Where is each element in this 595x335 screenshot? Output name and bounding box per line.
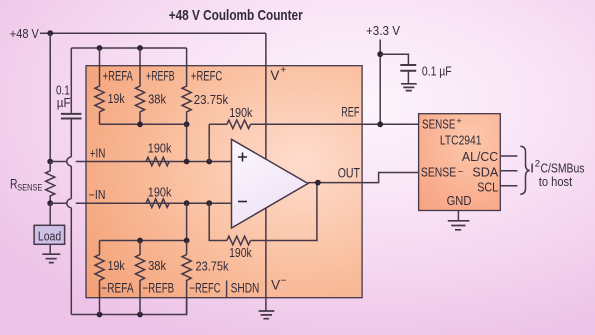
- load box: [34, 225, 65, 244]
- ground under C2: [401, 84, 417, 91]
- svg-text:19k: 19k: [108, 259, 126, 273]
- brace I2C bus: [520, 146, 530, 194]
- ground under load: [42, 254, 60, 262]
- op-amp U1 triangle: [232, 139, 309, 228]
- wire load to ground: [49, 244, 51, 254]
- resistor RSENSE: [46, 162, 55, 204]
- svg-text:+: +: [280, 65, 286, 76]
- svg-text:+: +: [456, 116, 462, 127]
- svg-text:µF: µF: [57, 96, 71, 110]
- svg-text:19k: 19k: [108, 92, 126, 106]
- IC LTC2941 body: [419, 114, 501, 211]
- svg-text:SENSE: SENSE: [17, 182, 42, 193]
- resistor +REFA 19k: [95, 48, 104, 124]
- wire GND stub: [457, 211, 459, 221]
- resistor R+IN 190k: [146, 157, 169, 166]
- wire hop over +IN: [67, 157, 72, 166]
- resistor REF 190k: [227, 120, 251, 129]
- wire +48V rail: [40, 32, 266, 34]
- junction OUT node: [315, 180, 321, 186]
- wire ref loop bottom: [71, 298, 186, 315]
- svg-text:−REFA: −REFA: [101, 281, 133, 296]
- wire sense line vertical upper: [49, 33, 51, 161]
- wire -IN line: [50, 202, 231, 204]
- junction +node A: [184, 159, 190, 165]
- svg-text:−: −: [458, 166, 464, 177]
- svg-text:SENSE: SENSE: [421, 166, 456, 180]
- svg-text:190k: 190k: [229, 106, 253, 120]
- svg-text:0.1 µF: 0.1 µF: [422, 64, 452, 78]
- svg-text:+REFB: +REFB: [146, 69, 175, 84]
- junction 23.75k bottom: [184, 121, 190, 127]
- amplifier block U1 body: [86, 66, 362, 298]
- pin stub SDA: [500, 170, 517, 172]
- junction +IN tap: [47, 159, 53, 165]
- ground SHDN / V-: [259, 311, 275, 319]
- junction 38k bottom: [137, 121, 143, 127]
- wire REF branch vertical: [208, 124, 210, 161]
- wire REF line: [209, 123, 418, 125]
- wire cap branch: [380, 54, 408, 83]
- wire sense line vertical lower: [49, 203, 51, 225]
- wire ref loop vertical left: [70, 48, 72, 315]
- svg-text:REF: REF: [341, 105, 359, 120]
- svg-text:V: V: [270, 68, 279, 83]
- pin stub SCL: [500, 185, 517, 187]
- svg-text:190k: 190k: [229, 246, 252, 260]
- resistor +REFB 38k: [135, 48, 144, 124]
- wire hop over -IN: [67, 199, 72, 208]
- svg-text:Load: Load: [38, 229, 61, 243]
- svg-text:SCL: SCL: [477, 181, 498, 195]
- resistor +REFC 23.75k: [182, 48, 191, 124]
- svg-text:SDA: SDA: [472, 166, 498, 180]
- wire -node to lower network: [186, 203, 188, 240]
- svg-text:38k: 38k: [148, 259, 167, 273]
- wire OUT line: [308, 173, 419, 183]
- resistor R-IN 190k: [146, 199, 169, 208]
- resistor -REFC 23.75k: [182, 241, 191, 315]
- capacitor C2 0.1uF: [400, 65, 416, 71]
- svg-text:+3.3 V: +3.3 V: [366, 24, 400, 38]
- wire lower network top rail: [100, 240, 187, 242]
- junction 23.75k top lower: [184, 238, 190, 244]
- svg-text:190k: 190k: [148, 186, 172, 200]
- svg-text:SHDN: SHDN: [231, 281, 260, 296]
- svg-text:+REFC: +REFC: [191, 69, 223, 84]
- svg-text:+48 V Coulomb Counter: +48 V Coulomb Counter: [169, 7, 303, 24]
- junction +node B: [206, 159, 212, 165]
- svg-text:23.75k: 23.75k: [196, 260, 230, 274]
- wire +node to network: [186, 124, 188, 161]
- junction 38k top lower: [137, 238, 143, 244]
- junction -REFA bottom: [97, 312, 103, 318]
- svg-text:GND: GND: [447, 194, 472, 208]
- svg-text:190k: 190k: [148, 141, 172, 155]
- capacitor C1 0.1uF left: [61, 114, 82, 119]
- svg-text:+48 V: +48 V: [10, 27, 39, 41]
- junction 3.3V cap tap: [377, 51, 383, 57]
- op-amp minus sign: [238, 201, 247, 203]
- svg-text:C/SMBus: C/SMBus: [541, 161, 585, 176]
- svg-text:+IN: +IN: [90, 147, 106, 161]
- wire feedback branch: [209, 183, 317, 241]
- wire top network bottom rail: [100, 123, 187, 125]
- wire +3.3V vertical: [379, 40, 381, 125]
- resistor -REFB 38k: [135, 241, 144, 315]
- svg-text:AL/CC: AL/CC: [462, 150, 498, 164]
- junction -node B: [206, 200, 212, 206]
- svg-text:38k: 38k: [148, 92, 167, 106]
- svg-text:−IN: −IN: [89, 188, 106, 202]
- wire V+ supply vertical and SHDN to ground: [265, 33, 267, 311]
- junction -REFB bottom: [137, 312, 143, 318]
- pin stub AL/CC: [500, 155, 517, 157]
- junction -IN tap: [47, 200, 53, 206]
- svg-text:−REFB: −REFB: [143, 281, 175, 296]
- svg-text:V: V: [271, 278, 280, 293]
- junction REF / SENSE+ node: [377, 121, 383, 127]
- wire ref loop top: [71, 47, 186, 49]
- ground under LTC2941: [448, 221, 470, 230]
- wire +IN line: [50, 161, 231, 163]
- svg-text:23.75k: 23.75k: [194, 93, 229, 107]
- resistor -REFA 19k: [95, 241, 104, 315]
- svg-text:−REFC: −REFC: [190, 281, 221, 296]
- svg-text:SENSE: SENSE: [422, 118, 455, 132]
- svg-text:to host: to host: [539, 175, 573, 189]
- svg-text:+REFA: +REFA: [103, 69, 133, 84]
- resistor FB 190k: [227, 236, 251, 245]
- svg-text:I: I: [530, 161, 534, 176]
- op-amp plus sign: [238, 153, 247, 162]
- junction -node A: [184, 200, 190, 206]
- svg-text:2: 2: [535, 159, 540, 170]
- svg-text:OUT: OUT: [338, 165, 360, 180]
- svg-text:LTC2941: LTC2941: [440, 133, 482, 147]
- junction +48V tap: [47, 30, 53, 36]
- pin tick SHDN separator: [226, 281, 228, 298]
- junction +REFB top: [137, 45, 143, 51]
- junction +REFA top: [97, 45, 103, 51]
- svg-text:−: −: [281, 276, 287, 287]
